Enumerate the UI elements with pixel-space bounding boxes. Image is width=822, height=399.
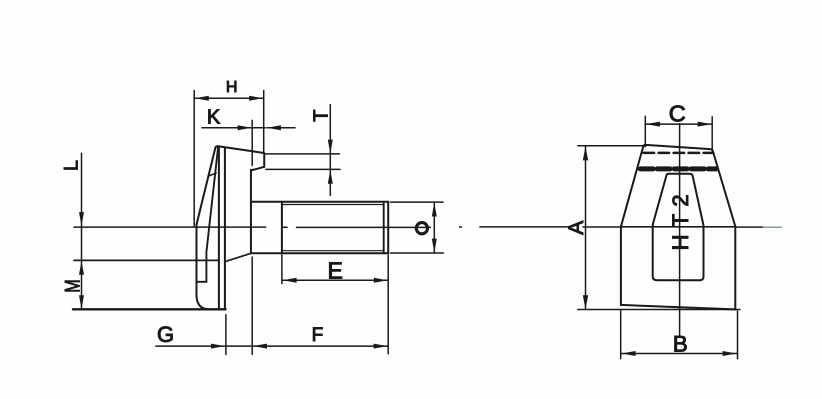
right view outer profile (621, 145, 735, 227)
head rung tick (209, 173, 216, 176)
svg-text:C: C (669, 100, 686, 126)
dimension G F shared line (156, 255, 388, 355)
svg-text:G: G (157, 322, 174, 347)
svg-text:T: T (310, 109, 332, 121)
svg-text:H: H (226, 79, 238, 96)
thread root line top (282, 204, 384, 206)
centerline main horizontal (74, 226, 781, 229)
head side view: outer profile left slant + bottom curve (197, 148, 216, 310)
svg-text:M: M (61, 279, 84, 293)
head-to-neck fillet diagonal (225, 253, 251, 261)
head lip right face (251, 153, 264, 170)
dimension phi (391, 202, 444, 253)
svg-text:K: K (207, 106, 221, 128)
thread start line (281, 202, 283, 253)
svg-text:L: L (61, 160, 83, 171)
dimension T lines (265, 105, 341, 196)
shaft top line (251, 201, 388, 203)
dashed line thin (644, 152, 714, 155)
dimension K (202, 120, 295, 165)
head front face line F1 (250, 170, 252, 253)
dimension C (645, 116, 712, 150)
shaft end chamfer line (383, 202, 385, 253)
head top edge (215, 146, 264, 153)
head face line inner (224, 148, 226, 309)
dimension E (282, 255, 388, 284)
shaft end face (387, 202, 389, 253)
phi circle symbol (416, 223, 427, 234)
right view vertical centerline (679, 124, 681, 337)
svg-text:B: B (673, 331, 688, 356)
rail/head bottom line (73, 308, 226, 310)
svg-text:HT2: HT2 (668, 194, 693, 250)
dashed line thick (640, 166, 716, 171)
svg-text:A: A (565, 221, 588, 235)
dimension A (578, 146, 740, 310)
shaft bottom line (251, 252, 388, 254)
dimension B (621, 311, 738, 359)
svg-text:E: E (328, 257, 343, 283)
head face line outer (218, 147, 220, 309)
right view slot (653, 174, 704, 280)
dimension H (194, 91, 264, 227)
head inner slant 2 with step (197, 147, 219, 281)
right view kink level line (622, 226, 736, 228)
thread root line bottom (282, 250, 384, 252)
rail line lower (74, 259, 219, 261)
svg-text:F: F (312, 325, 324, 346)
dimension L M vertical line (81, 153, 83, 309)
